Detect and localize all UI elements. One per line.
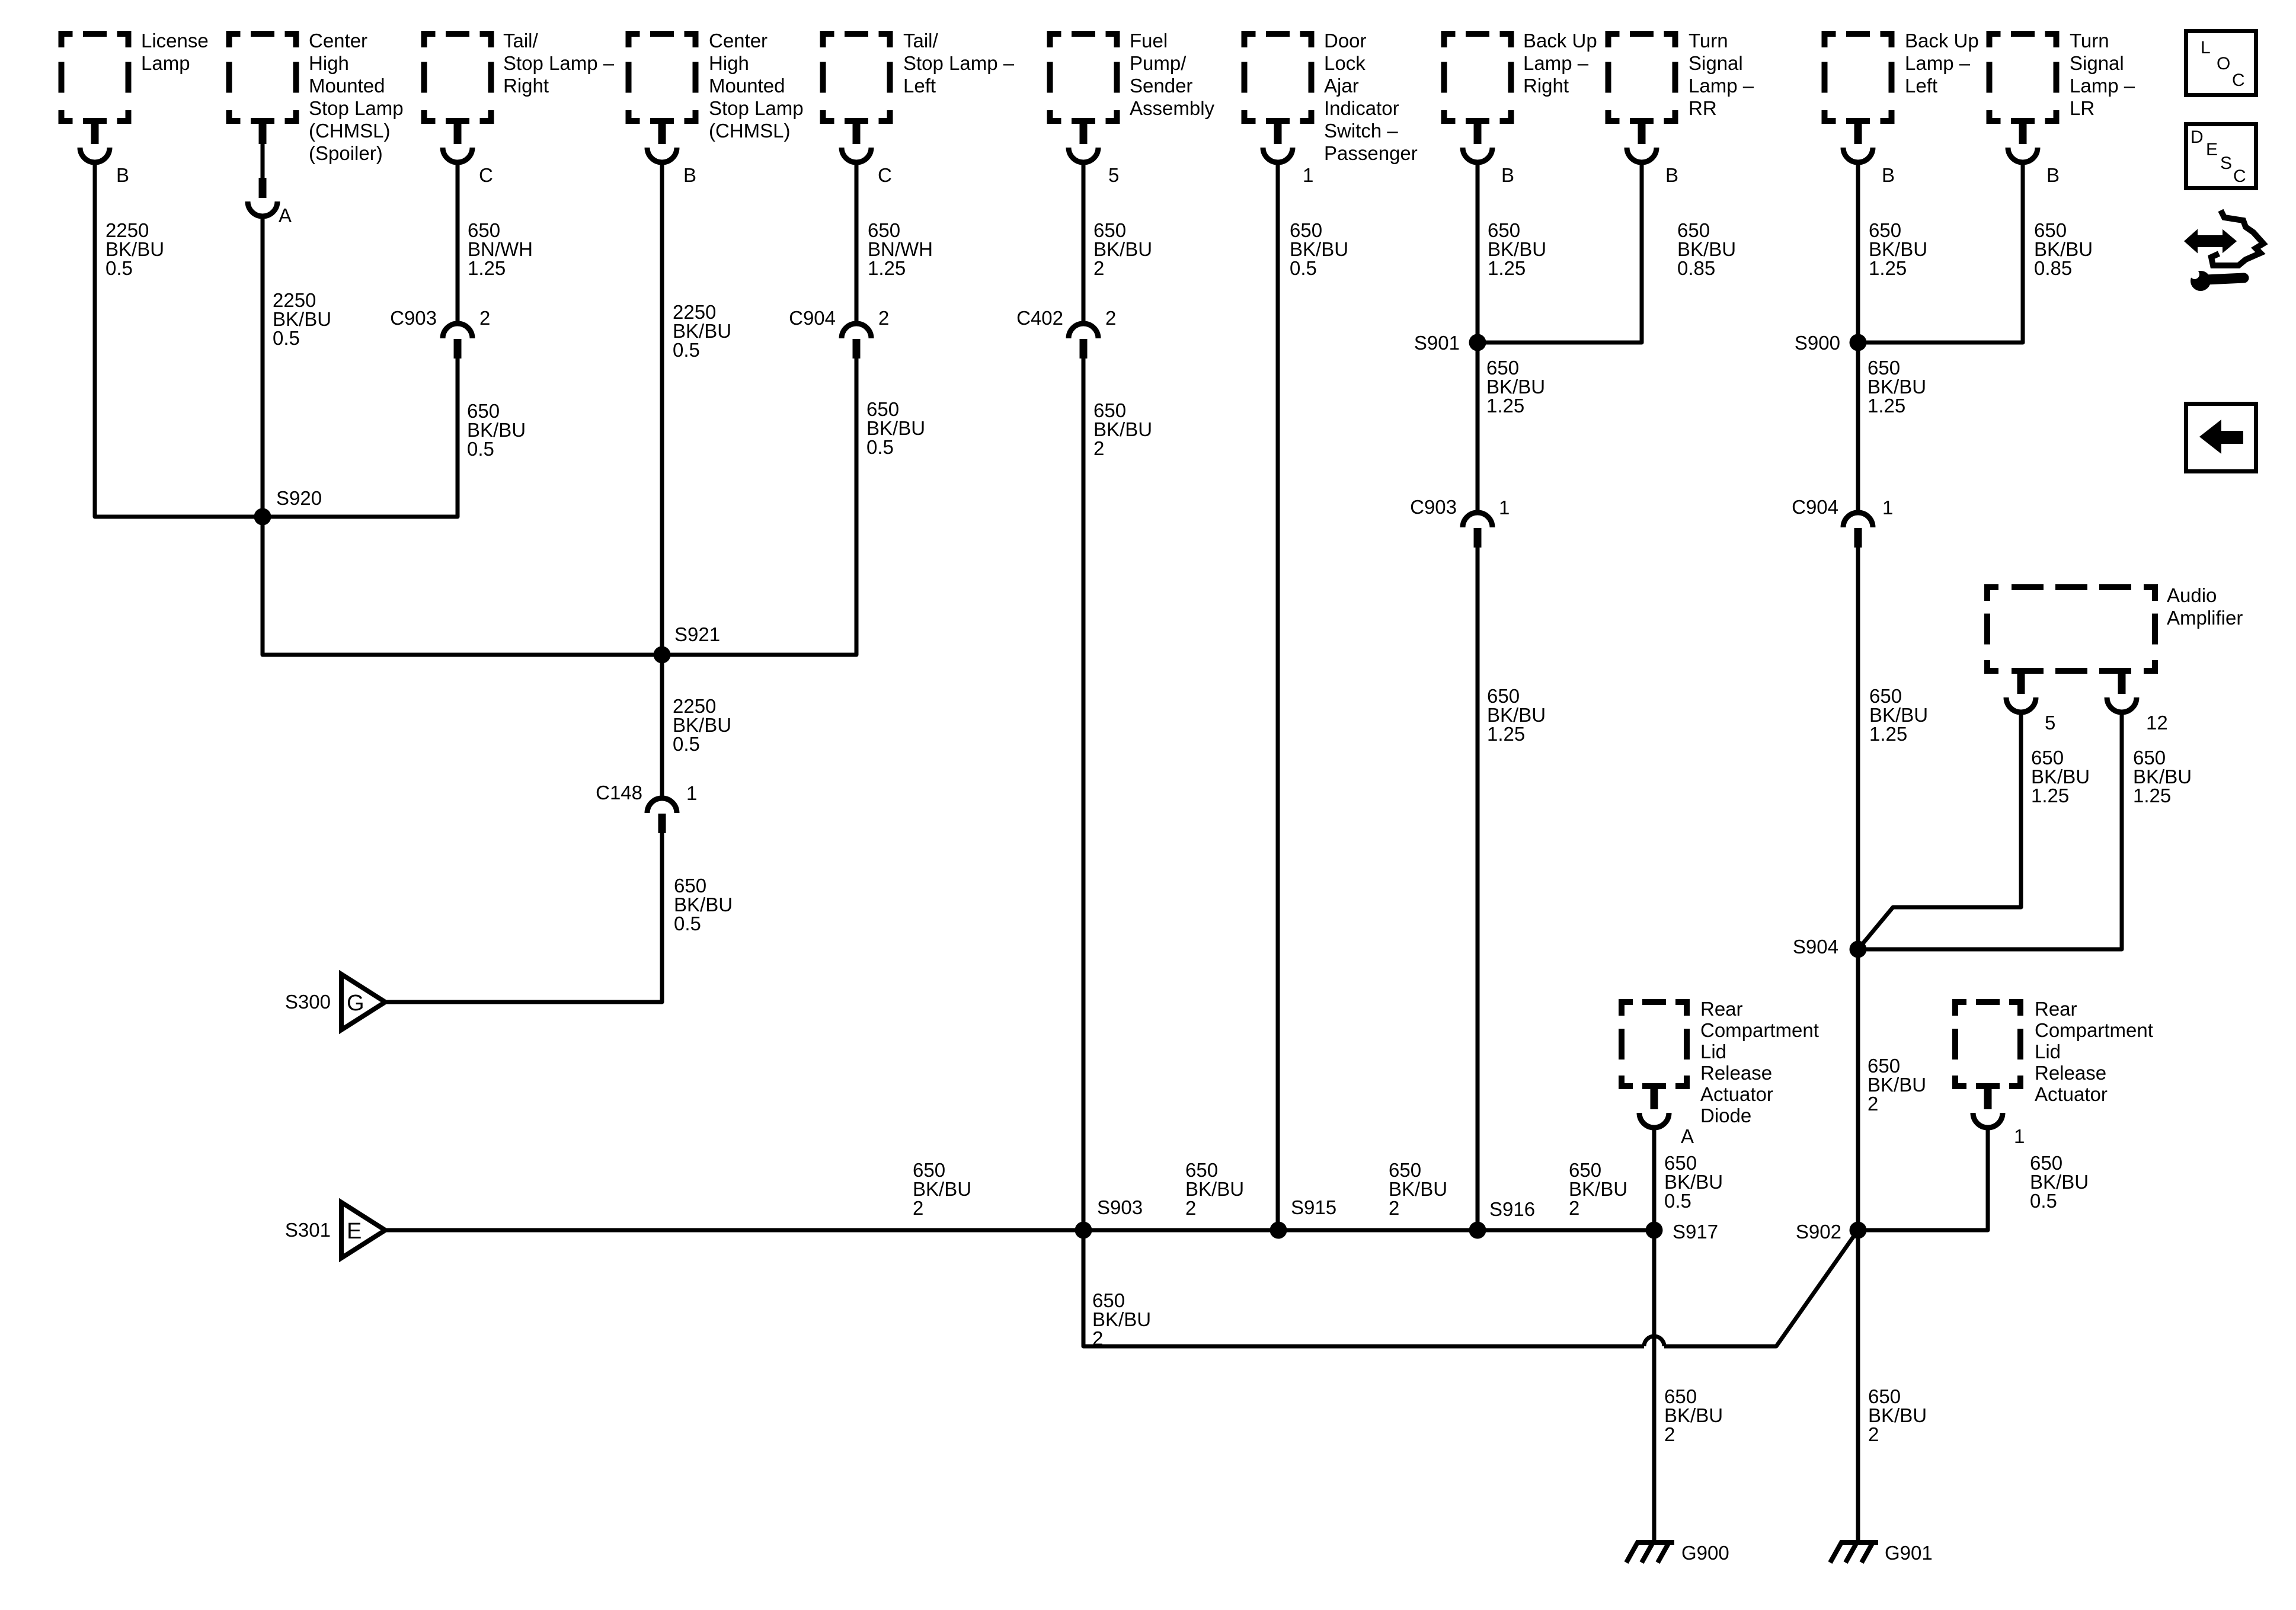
legend box DESC: [2186, 124, 2256, 188]
connector pin B of Turn Signal Lamp RR: [1638, 124, 1646, 144]
svg-text:O: O: [2217, 54, 2230, 73]
splice S915 junction: [1270, 1222, 1287, 1239]
wire: amp pin 12 down then left to S904, 650 BK/BU 1.25: [1858, 712, 2122, 949]
svg-text:12: 12: [2146, 712, 2168, 734]
component box: Tail/Stop Lamp - Left: [820, 31, 893, 124]
svg-text:C402: C402: [1016, 307, 1063, 329]
svg-text:(CHMSL): (CHMSL): [309, 120, 391, 142]
svg-text:0.5: 0.5: [467, 438, 494, 460]
svg-text:Center: Center: [709, 30, 768, 52]
pin stub of CHMSL spoiler: [259, 124, 267, 144]
svg-text:Lamp –: Lamp –: [1905, 52, 1971, 74]
svg-text:1.25: 1.25: [2133, 785, 2171, 806]
svg-text:G901: G901: [1885, 1542, 1933, 1564]
svg-text:Mounted: Mounted: [709, 75, 785, 97]
svg-text:Rear: Rear: [2035, 998, 2077, 1020]
ground G900: [1626, 1542, 1674, 1563]
svg-text:S: S: [2220, 153, 2232, 173]
wire: connector A down to splice S920, 2250 BK/BU 0.5: [261, 216, 265, 517]
svg-text:1.25: 1.25: [1487, 723, 1525, 745]
wire: C402 pin 2 down to splice S903, 650 BK/BU 2: [1082, 359, 1086, 1230]
svg-text:2: 2: [878, 307, 889, 329]
svg-text:1: 1: [1303, 164, 1313, 186]
connector pin 1 of Rear Compartment Lid Release Actuator: [1984, 1089, 1992, 1109]
svg-text:2: 2: [913, 1197, 923, 1219]
wire: pin B down to splice S901, 650 BK/BU 1.25: [1476, 162, 1480, 343]
svg-text:Release: Release: [2035, 1062, 2106, 1084]
wire: pin B down then left to S901, 650 BK/BU 0.85: [1478, 162, 1642, 343]
wire: S903 down then right to S902 with hop over G900 wire, 650 BK/BU 2: [1083, 1230, 1644, 1346]
svg-text:1: 1: [1499, 497, 1510, 518]
connector pin 5 of Fuel Pump/Sender Assembly: [1080, 124, 1088, 144]
svg-text:B: B: [116, 164, 129, 186]
wire: C903 pin 1 down to splice S916, 650 BK/BU 1.25: [1476, 548, 1480, 1230]
svg-text:0.5: 0.5: [1290, 257, 1317, 279]
svg-text:G900: G900: [1681, 1542, 1729, 1564]
svg-text:1: 1: [686, 782, 697, 804]
svg-text:2: 2: [1389, 1197, 1399, 1219]
svg-text:E: E: [347, 1219, 362, 1244]
svg-text:Signal: Signal: [2070, 52, 2124, 74]
svg-text:Left: Left: [1905, 75, 1937, 97]
svg-text:1: 1: [2014, 1125, 2025, 1147]
wire: S904 down to splice S902, 650 BK/BU 2: [1856, 949, 1860, 1230]
svg-text:D: D: [2191, 127, 2204, 147]
svg-text:Back Up: Back Up: [1523, 30, 1597, 52]
splice S917 junction: [1646, 1222, 1663, 1239]
splice S902 junction: [1850, 1222, 1867, 1239]
svg-text:Left: Left: [903, 75, 936, 97]
svg-text:C148: C148: [596, 782, 642, 804]
svg-text:Back Up: Back Up: [1905, 30, 1979, 52]
svg-text:C904: C904: [1792, 496, 1838, 518]
svg-text:1.25: 1.25: [468, 257, 506, 279]
svg-text:LR: LR: [2070, 97, 2094, 119]
connector pin C of Tail/Stop Lamp Right: [454, 124, 462, 144]
wire: C148 down then left to splice S300, 650 BK/BU 0.5: [385, 833, 662, 1002]
svg-text:S901: S901: [1414, 332, 1460, 354]
wire: actuator pin 1 down then left to S902, 650 BK/BU 0.5: [1858, 1128, 1988, 1230]
svg-text:S917: S917: [1673, 1221, 1718, 1243]
component box: Audio Amplifier: [1984, 584, 2158, 674]
wire: pin 5 down to connector C402 pin 2, 650 BK/BU 2: [1082, 162, 1086, 324]
svg-text:1.25: 1.25: [1868, 395, 1905, 417]
svg-text:B: B: [1501, 164, 1514, 186]
inline connector C903 pin 2: [443, 324, 472, 338]
connector pin 5 of Audio Amplifier: [2017, 674, 2025, 694]
component box: Back Up Lamp - Left: [1822, 31, 1895, 124]
splice S904 junction: [1850, 941, 1867, 958]
svg-text:S902: S902: [1796, 1221, 1841, 1243]
wire: main ground bus from S301 to S917, 650 BK/BU 2: [385, 1228, 1654, 1233]
wire: S917 down to ground G900, 650 BK/BU 2: [1652, 1230, 1657, 1542]
svg-text:Release: Release: [1700, 1062, 1772, 1084]
wire: pin B down to splice S900, 650 BK/BU 1.25: [1856, 162, 1860, 343]
svg-text:Passenger: Passenger: [1324, 142, 1418, 164]
svg-text:G: G: [347, 991, 364, 1016]
svg-text:1.25: 1.25: [1869, 257, 1907, 279]
connector pin B of Turn Signal Lamp LR: [2019, 124, 2027, 144]
svg-text:0.85: 0.85: [2034, 257, 2072, 279]
svg-text:2: 2: [1105, 307, 1116, 329]
svg-text:RR: RR: [1689, 97, 1717, 119]
wire: C903 pin 2 down then left to S920 bus, 650 BK/BU 0.5: [263, 359, 458, 517]
svg-text:Sender: Sender: [1130, 75, 1192, 97]
wire: pin C down to connector C904 pin 2, 650 BN/WH 1.25: [855, 162, 859, 324]
svg-text:C904: C904: [789, 307, 836, 329]
connector pin B of Back Up Lamp Left: [1854, 124, 1862, 144]
connector pin C of Tail/Stop Lamp Left: [853, 124, 861, 144]
component box: License Lamp: [59, 31, 132, 124]
svg-text:S916: S916: [1489, 1198, 1535, 1220]
svg-text:Indicator: Indicator: [1324, 97, 1399, 119]
svg-text:A: A: [279, 204, 292, 226]
wire: S920 down and right to S921, 2250 BK/BU 0.5: [263, 517, 662, 655]
svg-text:Amplifier: Amplifier: [2167, 607, 2243, 629]
svg-text:S904: S904: [1793, 936, 1838, 958]
svg-text:2: 2: [1664, 1423, 1675, 1445]
svg-text:0.5: 0.5: [674, 913, 701, 934]
wire: C904 pin 1 down to splice S904, 650 BK/BU 1.25: [1856, 548, 1860, 949]
legend icon: double arrow with component outline and wrench (service info): [2186, 210, 2263, 291]
wire: License Lamp pin B down to S920 bus, 2250 BK/BU 0.5: [95, 162, 263, 517]
svg-text:S301: S301: [285, 1219, 331, 1241]
wire: diode pin A down to splice S917, 650 BK/BU 0.5: [1652, 1128, 1657, 1230]
svg-text:2: 2: [479, 307, 490, 329]
svg-text:2: 2: [1093, 437, 1104, 459]
svg-text:Stop Lamp –: Stop Lamp –: [903, 52, 1015, 74]
component box: Tail/Stop Lamp - Right: [421, 31, 494, 124]
svg-text:2: 2: [1185, 1197, 1196, 1219]
svg-text:Tail/: Tail/: [503, 30, 539, 52]
splice S300 (ground splice G): [341, 974, 385, 1030]
svg-text:0.5: 0.5: [673, 339, 700, 361]
component box: Center High Mounted Stop Lamp (CHMSL) (Spoiler): [226, 31, 299, 124]
inline connector C904 pin 2: [842, 324, 871, 338]
svg-text:Lock: Lock: [1324, 52, 1366, 74]
component box: Back Up Lamp - Right: [1441, 31, 1514, 124]
component box: Rear Compartment Lid Release Actuator: [1952, 999, 2023, 1089]
wire: C904 pin 2 down to S921 bus, 650 BK/BU 0.5: [662, 359, 856, 655]
svg-text:S915: S915: [1291, 1196, 1336, 1218]
svg-text:1: 1: [1882, 497, 1893, 518]
wire: pin C down to connector C903 pin 2, 650 BN/WH 1.25: [456, 162, 460, 324]
svg-text:2: 2: [1092, 1327, 1103, 1349]
svg-text:Assembly: Assembly: [1130, 97, 1215, 119]
component box: Door Lock Ajar Indicator Switch - Passenger: [1242, 31, 1315, 124]
svg-text:Tail/: Tail/: [903, 30, 939, 52]
ground G901: [1830, 1542, 1878, 1563]
svg-text:Pump/: Pump/: [1130, 52, 1187, 74]
svg-text:B: B: [1882, 164, 1895, 186]
svg-text:Right: Right: [503, 75, 549, 97]
svg-text:A: A: [1681, 1125, 1694, 1147]
svg-text:1.25: 1.25: [1869, 723, 1907, 745]
connector pin 12 of Audio Amplifier: [2118, 674, 2126, 694]
svg-text:(CHMSL): (CHMSL): [709, 120, 791, 142]
inline connector C402 pin 2: [1069, 324, 1098, 338]
svg-text:S300: S300: [285, 991, 331, 1013]
svg-text:0.5: 0.5: [2030, 1190, 2057, 1212]
legend box with left arrow (continuation): [2186, 404, 2256, 472]
svg-text:Actuator: Actuator: [2035, 1083, 2108, 1105]
svg-text:Stop Lamp –: Stop Lamp –: [503, 52, 615, 74]
component box: Rear Compartment Lid Release Actuator Diode: [1619, 999, 1690, 1089]
svg-text:Diode: Diode: [1700, 1105, 1751, 1126]
svg-text:Turn: Turn: [1689, 30, 1728, 52]
svg-text:Stop Lamp: Stop Lamp: [709, 97, 804, 119]
svg-text:B: B: [2046, 164, 2060, 186]
svg-text:Door: Door: [1324, 30, 1367, 52]
svg-text:Lamp: Lamp: [141, 52, 190, 74]
splice S920 junction: [254, 508, 271, 526]
svg-text:2: 2: [1569, 1197, 1579, 1219]
svg-text:Center: Center: [309, 30, 367, 52]
svg-text:0.5: 0.5: [105, 257, 133, 279]
splice S903 junction: [1075, 1222, 1092, 1239]
svg-text:Stop Lamp: Stop Lamp: [309, 97, 404, 119]
svg-text:2: 2: [1868, 1423, 1879, 1445]
svg-text:S900: S900: [1795, 332, 1840, 354]
wire: S901 down to connector C903 pin 1, 650 BK/BU 1.25: [1476, 343, 1480, 513]
wire: S900 down to connector C904 pin 1, 650 BK/BU 1.25: [1856, 343, 1860, 513]
svg-text:Fuel: Fuel: [1130, 30, 1168, 52]
splice S921 junction: [654, 646, 671, 664]
svg-text:C: C: [2233, 167, 2246, 186]
legend box LOC: [2186, 31, 2256, 95]
connector pin 1 of Door Lock Ajar Indicator Switch: [1274, 124, 1282, 144]
svg-text:1.25: 1.25: [1488, 257, 1526, 279]
svg-text:S921: S921: [674, 623, 720, 645]
svg-text:E: E: [2206, 140, 2218, 159]
svg-text:1.25: 1.25: [2031, 785, 2069, 806]
inline connector C148 pin 1: [647, 798, 677, 813]
component box: Turn Signal Lamp - LR: [1987, 31, 2060, 124]
svg-text:Mounted: Mounted: [309, 75, 385, 97]
svg-text:0.85: 0.85: [1677, 257, 1715, 279]
svg-text:Lamp –: Lamp –: [2070, 75, 2135, 97]
svg-text:Lamp –: Lamp –: [1689, 75, 1754, 97]
svg-text:0.5: 0.5: [673, 733, 700, 755]
svg-text:Compartment: Compartment: [2035, 1019, 2153, 1041]
svg-text:Compartment: Compartment: [1700, 1019, 1819, 1041]
component box: Turn Signal Lamp - RR: [1606, 31, 1678, 124]
svg-text:Audio: Audio: [2167, 584, 2217, 606]
svg-text:2: 2: [1868, 1093, 1878, 1115]
svg-text:B: B: [683, 164, 696, 186]
component box: Center High Mounted Stop Lamp (CHMSL): [626, 31, 699, 124]
wire: amp pin 5 down, left, diagonal to S904, 650 BK/BU 1.25: [1858, 712, 2021, 949]
splice S900 junction: [1850, 334, 1867, 351]
connector pin B of Back Up Lamp Right: [1474, 124, 1482, 144]
wire: S902 down to ground G901, 650 BK/BU 2: [1856, 1230, 1860, 1542]
svg-text:0.5: 0.5: [1664, 1190, 1691, 1212]
svg-text:License: License: [141, 30, 209, 52]
svg-text:Lid: Lid: [2035, 1041, 2061, 1062]
svg-text:Rear: Rear: [1700, 998, 1743, 1020]
svg-text:C903: C903: [1410, 496, 1457, 518]
svg-text:(Spoiler): (Spoiler): [309, 142, 383, 164]
inline connector C903 pin 1: [1463, 513, 1492, 527]
svg-text:0.5: 0.5: [866, 436, 894, 458]
svg-text:Switch –: Switch –: [1324, 120, 1398, 142]
connector pin B of License Lamp: [91, 124, 99, 144]
svg-text:C: C: [2232, 71, 2245, 90]
svg-text:1.25: 1.25: [1486, 395, 1524, 417]
wire: pin B down then left to S900, 650 BK/BU 0.85: [1858, 162, 2023, 343]
svg-text:5: 5: [2045, 712, 2055, 734]
svg-text:C: C: [479, 164, 493, 186]
svg-text:0.5: 0.5: [273, 327, 300, 349]
splice S901 junction: [1469, 334, 1486, 351]
svg-text:Lamp –: Lamp –: [1523, 52, 1589, 74]
svg-text:B: B: [1665, 164, 1678, 186]
component box: Fuel Pump/Sender Assembly: [1047, 31, 1120, 124]
wire: S921 down to connector C148, 2250 BK/BU 0.5: [660, 655, 664, 798]
svg-text:Ajar: Ajar: [1324, 75, 1359, 97]
svg-text:Actuator: Actuator: [1700, 1083, 1773, 1105]
svg-text:Right: Right: [1523, 75, 1569, 97]
svg-text:5: 5: [1108, 164, 1119, 186]
svg-text:C: C: [878, 164, 892, 186]
wire: CHMSL pin B down to S921, 2250 BK/BU 0.5: [660, 162, 664, 655]
svg-text:Signal: Signal: [1689, 52, 1743, 74]
splice S916 junction: [1469, 1222, 1486, 1239]
svg-text:Lid: Lid: [1700, 1041, 1726, 1062]
svg-text:S920: S920: [276, 487, 322, 509]
splice S301 (ground splice E): [341, 1202, 385, 1258]
wire: pin 1 down to splice S915, 650 BK/BU 0.5: [1276, 162, 1280, 1230]
svg-text:L: L: [2201, 38, 2211, 57]
svg-text:1.25: 1.25: [868, 257, 906, 279]
svg-text:Turn: Turn: [2070, 30, 2109, 52]
svg-text:High: High: [309, 52, 349, 74]
svg-text:S903: S903: [1097, 1196, 1143, 1218]
svg-text:C903: C903: [390, 307, 437, 329]
connector pin A (inline cup): [259, 178, 267, 198]
svg-text:High: High: [709, 52, 749, 74]
wire: CHMSL spoiler pigtail down to connector A: [261, 144, 265, 178]
connector pin B of CHMSL: [658, 124, 666, 144]
connector pin A of Rear Compartment Lid Release Actuator Diode: [1651, 1089, 1658, 1109]
inline connector C904 pin 1: [1843, 513, 1873, 527]
svg-text:2: 2: [1093, 257, 1104, 279]
